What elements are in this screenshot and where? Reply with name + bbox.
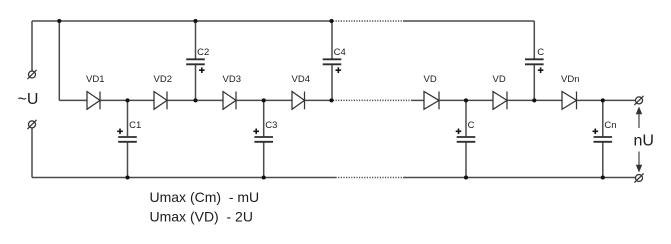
wire VD3 cathode to VD4 anode xyxy=(236,99,292,101)
svg-text:C: C xyxy=(468,120,475,131)
wire top rail solid segment xyxy=(32,20,332,22)
wire drop from top rail to middle rail at input xyxy=(58,21,60,100)
plus polarity of C (top right) xyxy=(538,67,544,73)
svg-text:VD: VD xyxy=(493,74,506,85)
svg-text:C4: C4 xyxy=(334,47,346,58)
wire VD4 cathode to C4 node xyxy=(305,99,332,101)
svg-text:C3: C3 xyxy=(265,120,277,131)
diode VD2 xyxy=(154,92,167,110)
arrow down toward lower output terminal xyxy=(636,152,642,173)
capacitor C1 lead lower xyxy=(127,143,129,178)
junction middle rail / C (top) xyxy=(532,98,536,102)
junction bottom rail / C (bottom) xyxy=(464,175,468,179)
arrow up toward upper output terminal xyxy=(636,107,642,129)
junction top rail / C2 xyxy=(193,19,197,23)
plus polarity of C3 xyxy=(253,129,259,135)
junction top rail / input drop xyxy=(57,19,61,23)
wire bottom rail dotted continuation xyxy=(336,177,403,179)
capacitor C4 lead lower xyxy=(331,65,333,100)
junction middle rail / C3 xyxy=(262,98,266,102)
terminal upper output (slashed circle) xyxy=(634,96,643,105)
capacitor C4 (top row) lead upper xyxy=(331,21,333,59)
plus polarity of Cn xyxy=(593,129,599,135)
wire VD cathode to VDn anode xyxy=(507,99,562,101)
capacitor Cn plates xyxy=(594,137,613,142)
diode VD4 xyxy=(292,92,305,110)
capacitor Cn lead lower xyxy=(602,143,604,178)
svg-text:VD4: VD4 xyxy=(292,74,310,85)
diode VD1 xyxy=(87,92,100,110)
diode VD (6th stage) xyxy=(493,92,507,110)
wire left riser from ~U lower terminal to bottom rail xyxy=(31,128,33,178)
diode VD3 xyxy=(223,92,236,110)
svg-text:C2: C2 xyxy=(197,47,209,58)
capacitor C (bottom row) lead upper xyxy=(465,100,467,136)
svg-text:VDn: VDn xyxy=(561,74,579,85)
plus polarity of C4 xyxy=(336,67,342,73)
wire VD cathode to next VD anode xyxy=(439,99,493,101)
junction middle rail / C1 xyxy=(125,98,129,102)
capacitor C3 plates xyxy=(254,137,273,142)
svg-text:Umax (Cm) - mU: Umax (Cm) - mU xyxy=(150,189,260,205)
capacitor C plates xyxy=(457,137,476,142)
wire VD2 cathode to VD3 anode xyxy=(167,99,223,101)
terminal lower input (slashed circle) xyxy=(27,120,36,129)
capacitor C3 (bottom row) lead upper xyxy=(263,100,265,136)
junction middle rail / C4 xyxy=(329,98,333,102)
wire bottom rail right solid segment xyxy=(403,177,635,179)
terminal lower output (slashed circle) xyxy=(634,173,643,182)
capacitor C lead lower xyxy=(465,143,467,178)
junction middle rail / C2 xyxy=(193,98,197,102)
junction top rail / C4 xyxy=(329,19,333,23)
terminal upper input (slashed circle) xyxy=(27,70,36,79)
wire left riser from ~U upper terminal to top rail xyxy=(31,21,33,71)
junction bottom rail / C3 xyxy=(262,175,266,179)
wire middle rail to VD1 anode xyxy=(59,99,87,101)
plus polarity of C1 xyxy=(117,129,123,135)
capacitor C1 plates xyxy=(118,137,137,142)
svg-text:VD3: VD3 xyxy=(223,74,241,85)
capacitor C3 lead lower xyxy=(263,143,265,178)
svg-text:VD: VD xyxy=(424,74,437,85)
plus polarity of C xyxy=(456,129,462,135)
plus polarity of C2 xyxy=(199,67,205,73)
wire middle rail dotted continuation xyxy=(333,99,411,101)
svg-text:C1: C1 xyxy=(129,120,141,131)
capacitor C2 (top row) lead upper xyxy=(195,21,197,59)
capacitor C2 lead lower xyxy=(195,65,197,100)
capacitor Cn (bottom row) lead upper xyxy=(602,100,604,136)
junction bottom rail / C1 xyxy=(125,175,129,179)
svg-text:VD1: VD1 xyxy=(86,74,104,85)
svg-text:nU: nU xyxy=(634,133,654,150)
wire VDn cathode to upper output terminal xyxy=(577,99,636,101)
junction middle rail / C (bottom) xyxy=(464,98,468,102)
wire drop from top rail to capacitor C (top right) xyxy=(533,21,535,59)
capacitor C2 plates xyxy=(186,59,205,64)
svg-text:VD2: VD2 xyxy=(154,74,172,85)
diode VDn xyxy=(562,92,577,110)
capacitor C4 plates xyxy=(323,59,342,64)
svg-text:Umax (VD) - 2U: Umax (VD) - 2U xyxy=(150,209,253,225)
wire top rail dotted continuation xyxy=(333,20,403,22)
wire VD1 cathode to VD2 anode xyxy=(100,99,154,101)
wire top rail right solid segment xyxy=(403,20,534,22)
wire bottom rail left solid segment xyxy=(32,177,336,179)
junction bottom rail / Cn xyxy=(601,175,605,179)
svg-text:Cn: Cn xyxy=(604,120,616,131)
svg-text:~U: ~U xyxy=(18,91,39,108)
capacitor C1 (bottom row) lead upper xyxy=(127,100,129,136)
diode VD (5th stage) xyxy=(424,92,439,110)
wire to VD anode (5th) xyxy=(411,99,424,101)
svg-text:C: C xyxy=(537,47,544,58)
wire capacitor C lower lead to middle rail xyxy=(533,65,535,100)
junction middle rail / Cn xyxy=(601,98,605,102)
capacitor C (top right) plates xyxy=(525,59,544,64)
